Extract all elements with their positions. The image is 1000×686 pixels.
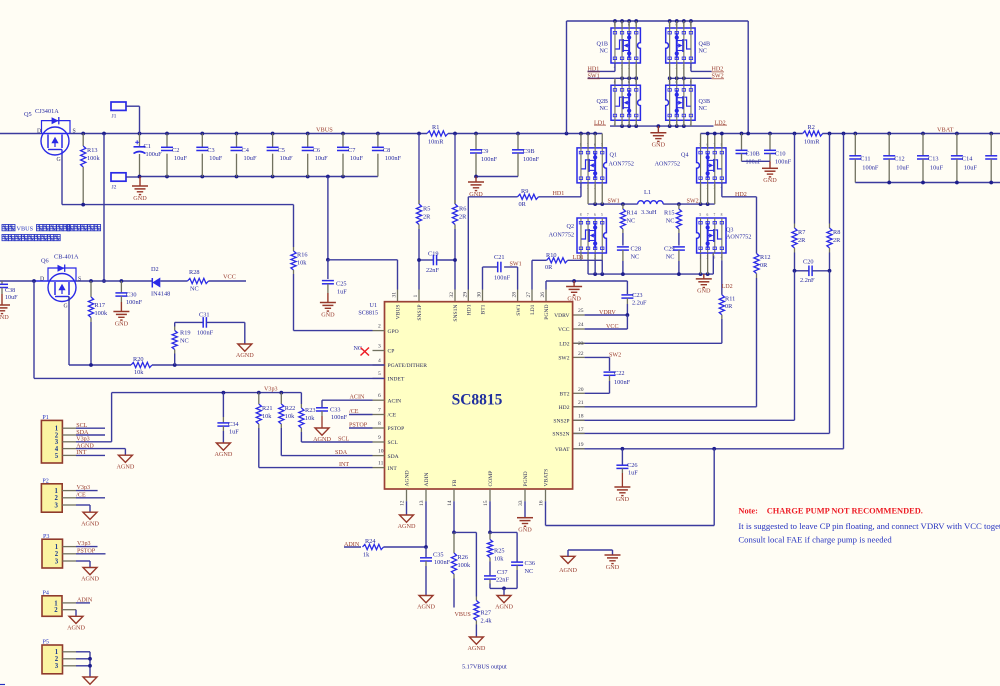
net label HD1 <box>553 191 565 197</box>
resistor R14 NC snubber <box>620 204 638 245</box>
svg-text:2: 2 <box>706 255 708 259</box>
transistor Q1B NC (AON7752 package, not fitted) <box>596 21 640 69</box>
analog ground to ground tie AGND <box>559 550 612 574</box>
pin name PGATE/DITHER (left) <box>388 363 428 369</box>
ground GND at pin 33 <box>517 518 533 534</box>
wire SNS1N pin32 stub <box>449 290 455 302</box>
svg-text:ADIN: ADIN <box>77 598 93 604</box>
wire HD1 from pin29 through R9 <box>462 197 517 302</box>
capacitor C34 1uF <box>217 393 239 443</box>
svg-text:30: 30 <box>477 292 483 298</box>
svg-text:SW1: SW1 <box>510 262 522 268</box>
svg-text:C8: C8 <box>383 147 390 154</box>
wire power ground rail of H-bridge <box>588 253 713 276</box>
svg-text:100nF: 100nF <box>434 559 451 566</box>
svg-text:C12: C12 <box>894 156 905 163</box>
svg-text:R5: R5 <box>423 205 430 212</box>
capacitor C10B 100nF <box>736 134 762 166</box>
svg-text:2R: 2R <box>423 213 431 220</box>
svg-text:R24: R24 <box>365 538 376 545</box>
pin name PSTOP (left) <box>388 426 405 432</box>
wire HD2 pin21 wrap through R12 <box>573 197 760 407</box>
capacitor C36 NC compensation <box>490 532 535 588</box>
pin name SDA (left) <box>388 454 399 460</box>
svg-text:VCC: VCC <box>558 327 570 333</box>
pin name PGND (bottom) <box>523 471 529 486</box>
svg-text:GND: GND <box>652 142 666 149</box>
svg-text:3: 3 <box>54 502 58 509</box>
transistor Q4 AON7752 <box>655 134 726 190</box>
svg-text:R11: R11 <box>725 295 735 302</box>
svg-text:VCC: VCC <box>223 274 236 281</box>
wire capacitor ground rail with GND <box>138 175 378 179</box>
svg-text:GND: GND <box>763 177 777 184</box>
svg-text:NC: NC <box>190 286 199 293</box>
connector J2 <box>111 173 140 191</box>
resistor R28 NC <box>188 269 247 292</box>
svg-text:R22: R22 <box>285 405 296 412</box>
capacitor C12 10uF <box>883 134 909 183</box>
wire VBAT bus from Q4 drain to R2 <box>701 132 803 136</box>
svg-text:V3p3: V3p3 <box>77 541 91 547</box>
pin 15 COMP wire <box>483 489 492 534</box>
svg-text:20: 20 <box>578 387 584 393</box>
net label INT at P1 <box>76 450 86 456</box>
wire SW2 pin22 to bootstrap cap C22 <box>573 351 610 371</box>
wire HD2 from Q4 gate <box>722 183 757 197</box>
svg-text:100nF: 100nF <box>494 275 511 282</box>
net label SW2 with source wire of Q4B Q3B <box>668 63 724 85</box>
ground GND under C9 <box>468 177 484 198</box>
svg-text:10uF: 10uF <box>209 155 222 162</box>
analog ground AGND under C35 <box>417 596 435 611</box>
transistor Q4B NC <box>666 21 710 69</box>
svg-text:2: 2 <box>54 495 58 502</box>
svg-text:GND: GND <box>697 288 711 295</box>
svg-text:C13: C13 <box>928 156 939 163</box>
svg-text:2R: 2R <box>833 237 841 244</box>
svg-text:GND: GND <box>321 311 335 318</box>
net label SW1 at inductor <box>608 199 620 205</box>
wire SW1 node <box>588 183 638 206</box>
svg-text:100nF: 100nF <box>862 165 879 172</box>
svg-text:R8: R8 <box>833 229 840 236</box>
ground GND under C30 <box>113 312 129 328</box>
svg-text:10uF: 10uF <box>930 165 943 172</box>
svg-text:R19: R19 <box>180 329 191 336</box>
svg-text:12: 12 <box>400 500 406 506</box>
pin name GPO (left) <box>388 329 399 335</box>
net label SW2 at inductor <box>687 199 699 205</box>
svg-text:R14: R14 <box>627 210 638 217</box>
svg-text:11: 11 <box>378 460 384 466</box>
svg-text:D: D <box>40 276 44 282</box>
analog ground AGND for P5 <box>81 677 99 686</box>
svg-text:3: 3 <box>55 558 59 565</box>
svg-text:R27: R27 <box>481 610 492 617</box>
pin 10 SDA wire <box>281 448 384 456</box>
svg-text:SNS1P: SNS1P <box>417 305 423 321</box>
svg-text:19: 19 <box>578 442 584 448</box>
net label AGND at P1 <box>76 443 94 449</box>
svg-text:10uF: 10uF <box>280 155 293 162</box>
svg-text:15: 15 <box>483 500 489 506</box>
svg-text:VCC: VCC <box>606 324 619 330</box>
analog ground AGND under C34 <box>214 443 232 458</box>
svg-text:NC: NC <box>180 337 189 344</box>
svg-text:P5: P5 <box>43 640 49 646</box>
pin 14 FB wire <box>447 489 456 534</box>
svg-text:100nF: 100nF <box>197 330 214 337</box>
svg-text:2.4k: 2.4k <box>481 618 493 625</box>
svg-text:C10B: C10B <box>746 152 760 158</box>
svg-text:8: 8 <box>378 421 381 427</box>
svg-text:9: 9 <box>378 435 381 441</box>
capacitor C4 10uF <box>231 134 257 177</box>
net label SW2 at bootstrap <box>609 352 621 358</box>
svg-text:LD1: LD1 <box>594 120 605 126</box>
svg-text:C29: C29 <box>664 246 675 253</box>
svg-text:1uF: 1uF <box>229 429 239 436</box>
svg-text:R26: R26 <box>458 554 469 561</box>
svg-text:NC: NC <box>525 568 534 575</box>
svg-text:INT: INT <box>388 466 398 472</box>
svg-text:Q6: Q6 <box>41 258 49 265</box>
pin name VDRV (right) <box>554 313 569 319</box>
inductor L1 3.3uH <box>638 189 664 216</box>
net label VBUS at R26 <box>455 612 472 618</box>
svg-text:6: 6 <box>594 213 596 217</box>
net label HD2 <box>735 192 747 198</box>
svg-text:2: 2 <box>594 255 596 259</box>
svg-text:J2: J2 <box>112 184 117 190</box>
pin 5 INDET wire <box>373 371 385 378</box>
net label V3p3 at P2 <box>77 485 91 491</box>
svg-text:R16: R16 <box>297 252 308 259</box>
capacitor C19 22nF across sense lines <box>417 250 457 289</box>
pin name VBUS (top) <box>396 305 402 320</box>
svg-text:22: 22 <box>578 351 584 357</box>
svg-text:C3: C3 <box>207 147 214 154</box>
wire VBAT bus right of R2 <box>822 132 1000 136</box>
svg-text:LD2: LD2 <box>722 284 733 290</box>
svg-text:16: 16 <box>539 500 545 506</box>
svg-text:1: 1 <box>55 544 59 551</box>
svg-text:AGND: AGND <box>236 352 254 359</box>
svg-text:R1: R1 <box>432 124 439 131</box>
svg-text:AON7752: AON7752 <box>549 233 574 239</box>
net label LD2 <box>715 120 728 126</box>
svg-text:SCL: SCL <box>388 440 399 446</box>
analog ground AGND for P4 <box>67 616 85 631</box>
net label LD1 at Q2 gate <box>573 255 584 261</box>
svg-text:14: 14 <box>447 500 453 506</box>
svg-text:2R: 2R <box>459 213 467 220</box>
svg-text:VBATS: VBATS <box>544 469 550 487</box>
svg-text:P1: P1 <box>42 415 48 421</box>
svg-text:100nF: 100nF <box>775 159 792 166</box>
svg-text:C14: C14 <box>962 156 973 163</box>
resistor R10 0R <box>545 252 568 271</box>
pin name ADIN (bottom) <box>424 473 430 487</box>
wire B-FET top rail <box>567 19 749 133</box>
capacitor C28 NC snubber <box>617 246 641 275</box>
pin 9 SCL wire <box>301 435 384 443</box>
ground GND of ground tie <box>605 555 621 571</box>
svg-text:7: 7 <box>621 80 623 84</box>
svg-text:ACIN: ACIN <box>350 395 365 401</box>
svg-text:CJ3401A: CJ3401A <box>35 108 59 115</box>
svg-text:ACIN: ACIN <box>388 398 402 404</box>
connector P5 3-pin header <box>42 640 92 677</box>
svg-text:GND: GND <box>115 320 129 327</box>
svg-text:VBUS: VBUS <box>396 305 402 320</box>
svg-text:18: 18 <box>578 414 584 420</box>
pin name SNS1N (top) <box>453 305 459 322</box>
wire Q5 gate line <box>62 155 294 207</box>
capacitor C14 10uF <box>951 134 977 183</box>
svg-text:AGND: AGND <box>398 523 416 530</box>
svg-text:SC8815: SC8815 <box>358 311 378 317</box>
svg-text:10uF: 10uF <box>964 165 977 172</box>
svg-text:SW2: SW2 <box>558 356 569 362</box>
svg-text:AON7752: AON7752 <box>609 162 634 168</box>
svg-text:5: 5 <box>635 80 637 84</box>
analog ground AGND near C31 <box>236 344 254 359</box>
svg-text:C20: C20 <box>803 258 814 265</box>
pin name /CE (left) <box>388 413 397 419</box>
svg-text:PGATE/DITHER: PGATE/DITHER <box>388 363 428 369</box>
svg-text:SDA: SDA <box>76 430 89 436</box>
analog ground AGND for P3 <box>81 568 99 583</box>
pin 8 PSTOP stub with label <box>349 421 385 429</box>
svg-text:FB: FB <box>452 479 458 486</box>
resistor R15 NC snubber <box>664 204 682 245</box>
svg-text:AGND: AGND <box>76 443 94 449</box>
svg-text:NC: NC <box>699 49 707 55</box>
wire VDRV pin25 <box>573 308 630 317</box>
svg-text:PSTOP: PSTOP <box>388 426 405 432</box>
svg-text:13: 13 <box>419 500 425 506</box>
svg-text:C26: C26 <box>627 462 638 469</box>
svg-text:C19: C19 <box>428 250 439 257</box>
capacitor C31 100nF <box>175 311 245 344</box>
pin name INDET (left) <box>388 377 405 383</box>
svg-text:7: 7 <box>714 213 716 217</box>
svg-text:100k: 100k <box>458 562 471 569</box>
svg-text:C28: C28 <box>631 246 642 253</box>
svg-text:22nF: 22nF <box>426 267 439 274</box>
svg-text:GND: GND <box>616 496 630 503</box>
svg-text:COMP: COMP <box>488 471 494 487</box>
svg-text:INT: INT <box>76 450 86 456</box>
wire SNS2P pin18 wrap <box>573 271 795 421</box>
resistor R21 10k pullup <box>256 393 272 468</box>
svg-text:Q3: Q3 <box>726 228 733 234</box>
resistor R23 10k pullup <box>299 393 316 442</box>
net label VCC <box>606 324 619 330</box>
svg-text:AGND: AGND <box>313 436 331 443</box>
svg-text:G: G <box>64 304 68 310</box>
svg-text:SCL: SCL <box>76 423 87 429</box>
note title CHARGE PUMP NOT RECOMMENDED <box>738 507 922 516</box>
svg-text:AGND: AGND <box>417 604 435 611</box>
pin 13 ADIN wire <box>419 489 428 549</box>
connector P4 2-pin header <box>42 590 90 616</box>
svg-text:VBUS: VBUS <box>455 612 472 618</box>
pin name LD2 (right) <box>559 342 569 348</box>
svg-text:Q4: Q4 <box>681 153 688 159</box>
svg-text:100uF: 100uF <box>146 151 163 158</box>
capacitor C38 10uF at left edge <box>0 281 34 305</box>
svg-text:100nF: 100nF <box>126 299 143 306</box>
svg-text:10: 10 <box>378 448 384 454</box>
svg-text:8: 8 <box>690 80 692 84</box>
svg-text:R2: R2 <box>808 124 815 131</box>
svg-text:NC: NC <box>666 218 675 225</box>
svg-text:PSTOP: PSTOP <box>349 423 368 429</box>
svg-text:10k: 10k <box>262 413 272 420</box>
svg-text:10uF: 10uF <box>315 155 328 162</box>
pin 11 INT wire <box>259 460 385 468</box>
pin 4 PGATE/DITHER wire <box>373 358 385 365</box>
capacitor C5 10uF <box>267 134 293 177</box>
svg-text:HD1: HD1 <box>553 191 565 197</box>
resistor R16 10k <box>291 205 308 331</box>
svg-text:NC: NC <box>600 49 608 55</box>
svg-text:AGND: AGND <box>467 645 485 652</box>
svg-text:5: 5 <box>668 80 670 84</box>
ground GND on PGND net <box>566 281 582 302</box>
connector P3 3-pin header <box>42 534 106 568</box>
svg-text:BT2: BT2 <box>560 392 570 398</box>
svg-text:29: 29 <box>462 292 468 298</box>
analog ground AGND under R27 <box>467 637 485 652</box>
pin name VBAT (right) <box>555 447 570 453</box>
svg-text:C36: C36 <box>525 560 536 567</box>
wire INDET from Q6 drain to pin 5 <box>32 279 384 378</box>
svg-text:10k: 10k <box>494 556 504 563</box>
resistor R2 10mR current sense <box>803 124 823 145</box>
resistor R19 NC <box>172 322 190 365</box>
net label V3p3 at P3 <box>77 541 91 547</box>
svg-text:V3p3: V3p3 <box>77 485 91 491</box>
net label SCL at P1 <box>76 423 87 429</box>
svg-text:10uF: 10uF <box>174 155 187 162</box>
resistor R6 2R <box>452 134 467 261</box>
svg-text:NC: NC <box>699 106 707 112</box>
svg-text:5.17VBUS output: 5.17VBUS output <box>462 663 507 670</box>
transistor Q3B NC <box>666 80 710 126</box>
svg-text:GND: GND <box>518 527 532 534</box>
svg-text:6: 6 <box>378 393 381 399</box>
IC U1 SC8815 <box>358 302 572 489</box>
svg-text:C2: C2 <box>172 147 179 154</box>
svg-text:V3p3: V3p3 <box>264 387 278 393</box>
svg-text:C6: C6 <box>313 147 320 154</box>
svg-text:R28: R28 <box>189 269 200 276</box>
svg-text:R15: R15 <box>664 210 675 217</box>
capacitor C1 100uF electrolytic <box>134 134 163 177</box>
svg-text:PSTOP: PSTOP <box>77 548 96 554</box>
svg-text:3: 3 <box>378 343 381 349</box>
svg-text:21: 21 <box>578 400 584 406</box>
svg-text:1: 1 <box>54 488 58 495</box>
ground GND under C26 <box>614 487 630 503</box>
wire LD1 LD2 line under B-FETs <box>610 120 714 128</box>
svg-text:32: 32 <box>449 292 455 298</box>
svg-text:1: 1 <box>699 255 701 259</box>
resistor R11 0R labels <box>725 295 735 310</box>
svg-text:Note:: Note: <box>738 507 758 516</box>
wire HD1 to Q1 gate <box>539 183 581 197</box>
svg-text:AGND: AGND <box>116 463 134 470</box>
text 5.17VBUS output <box>462 663 507 670</box>
pin name HD2 (right) <box>559 405 570 411</box>
svg-text:27: 27 <box>526 292 532 298</box>
svg-text:C31: C31 <box>199 311 210 318</box>
svg-text:R10: R10 <box>546 252 557 259</box>
svg-text:HD2: HD2 <box>735 192 747 198</box>
svg-text:C38: C38 <box>5 288 15 294</box>
svg-text:C4: C4 <box>242 147 250 154</box>
svg-text:NC: NC <box>354 346 362 352</box>
wire LD1 to Q2 gate <box>568 259 603 261</box>
transistor Q2 AON7752 <box>549 213 607 260</box>
ground GND under input rail <box>132 177 148 202</box>
svg-text:5: 5 <box>601 213 603 217</box>
svg-text:1uF: 1uF <box>628 470 638 477</box>
capacitor C23 2.2uF on VDRV <box>621 281 647 315</box>
transistor Q3 AON7752 <box>697 213 752 260</box>
svg-text:VBUS: VBUS <box>17 226 34 233</box>
svg-text:0R: 0R <box>725 303 733 310</box>
wire V3p3 rail <box>112 391 302 395</box>
diode D2 IN4148 <box>151 266 188 297</box>
connector J1 <box>111 102 140 134</box>
capacitor C15 at right edge <box>985 134 997 183</box>
svg-text:R21: R21 <box>262 405 273 412</box>
pin name PGND (top) <box>544 305 550 320</box>
svg-text:P4: P4 <box>43 590 49 596</box>
partial text at bottom left corner <box>0 684 5 686</box>
svg-text:2: 2 <box>378 323 381 329</box>
svg-text:10uF: 10uF <box>5 295 18 301</box>
svg-text:R23: R23 <box>305 407 316 414</box>
net label VBAT <box>937 126 954 133</box>
pin name BT1 (top) <box>481 304 487 314</box>
svg-text:0R: 0R <box>545 264 553 271</box>
wire VBUS input bus left of Q5 <box>0 133 42 135</box>
svg-text:22nF: 22nF <box>496 577 509 584</box>
wire long vertical from VBUS bus to Q6 <box>102 134 106 283</box>
svg-text:C5: C5 <box>278 147 285 154</box>
svg-text:HD2: HD2 <box>559 405 570 411</box>
resistor R7 2R <box>792 134 806 271</box>
svg-text:10k: 10k <box>305 415 315 422</box>
svg-text:2: 2 <box>55 656 59 663</box>
ground GND under H-bridge rail <box>696 274 712 295</box>
note line 2 <box>738 521 1000 531</box>
capacitor C25 1uF on VBUS pin <box>322 177 347 303</box>
capacitor C10 100nF <box>764 134 792 166</box>
svg-text:R7: R7 <box>798 229 805 236</box>
resistor R27 2.4k feedback bottom <box>454 532 492 637</box>
svg-text:3: 3 <box>55 663 59 670</box>
svg-text:R12: R12 <box>760 254 771 261</box>
net label SW1 at bootstrap <box>510 262 522 268</box>
svg-text:C35: C35 <box>433 552 444 559</box>
